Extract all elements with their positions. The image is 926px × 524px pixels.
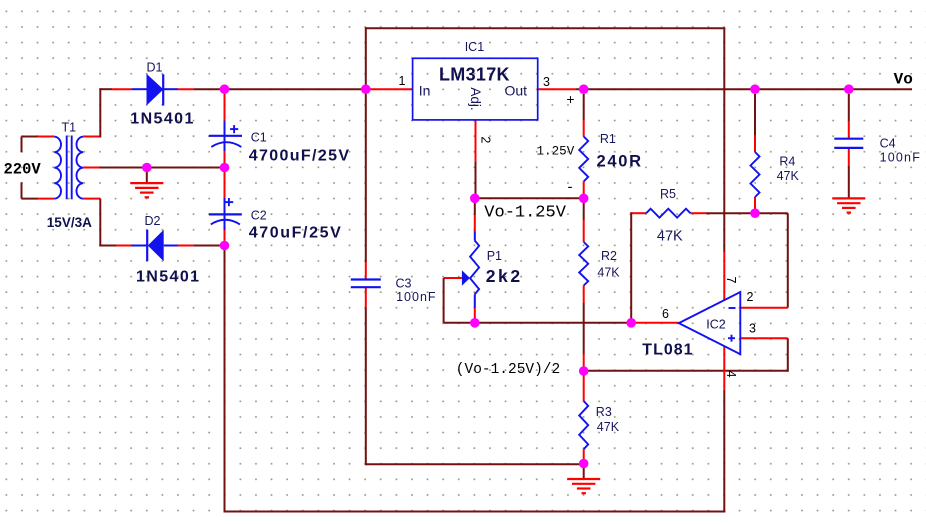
svg-text:1N5401: 1N5401 (136, 269, 200, 286)
svg-text:IC2: IC2 (706, 318, 726, 332)
svg-text:470uF/25V: 470uF/25V (249, 225, 343, 242)
svg-text:2: 2 (747, 290, 754, 304)
svg-text:R5: R5 (660, 187, 676, 201)
svg-text:100nF: 100nF (396, 290, 436, 304)
svg-text:100nF: 100nF (880, 151, 921, 165)
svg-text:In: In (419, 82, 431, 98)
svg-text:2k2: 2k2 (486, 266, 523, 286)
svg-text:+: + (566, 91, 574, 107)
svg-text:Adj.: Adj. (468, 87, 483, 110)
svg-text:47K: 47K (597, 266, 620, 280)
svg-text:47K: 47K (597, 420, 620, 434)
svg-text:6: 6 (662, 307, 669, 321)
svg-text:(Vo-1.25V)/2: (Vo-1.25V)/2 (456, 362, 560, 378)
svg-text:4: 4 (724, 371, 738, 378)
svg-text:LM317K: LM317K (439, 65, 510, 85)
svg-text:D2: D2 (145, 214, 161, 228)
svg-text:C1: C1 (251, 131, 267, 145)
svg-text:T1: T1 (62, 121, 77, 135)
svg-text:3: 3 (749, 322, 756, 336)
svg-text:TL081: TL081 (642, 342, 693, 359)
svg-text:C3: C3 (396, 277, 412, 291)
svg-text:1: 1 (399, 74, 406, 88)
svg-text:IC1: IC1 (465, 40, 485, 54)
svg-text:1N5401: 1N5401 (130, 111, 194, 128)
svg-text:15V/3A: 15V/3A (47, 215, 92, 230)
svg-text:4700uF/25V: 4700uF/25V (249, 148, 351, 165)
svg-text:47K: 47K (777, 169, 800, 183)
svg-text:47K: 47K (657, 228, 683, 244)
svg-text:7: 7 (724, 277, 738, 284)
svg-text:-: - (568, 179, 573, 196)
svg-text:Out: Out (505, 82, 528, 98)
svg-text:2: 2 (479, 136, 493, 143)
svg-text:C4: C4 (880, 137, 896, 151)
svg-text:R3: R3 (596, 405, 612, 419)
svg-text:D1: D1 (147, 61, 163, 75)
svg-text:R2: R2 (601, 249, 617, 263)
svg-text:240R: 240R (597, 153, 643, 171)
svg-text:3: 3 (543, 75, 550, 89)
svg-text:1.25V: 1.25V (537, 145, 575, 159)
svg-text:Vo-1.25V: Vo-1.25V (484, 204, 566, 223)
svg-text:220V: 220V (4, 161, 42, 179)
svg-text:Vo: Vo (894, 71, 913, 89)
svg-text:R1: R1 (600, 132, 616, 146)
svg-text:C2: C2 (251, 209, 267, 223)
svg-text:P1: P1 (487, 249, 502, 263)
svg-text:R4: R4 (779, 155, 795, 169)
